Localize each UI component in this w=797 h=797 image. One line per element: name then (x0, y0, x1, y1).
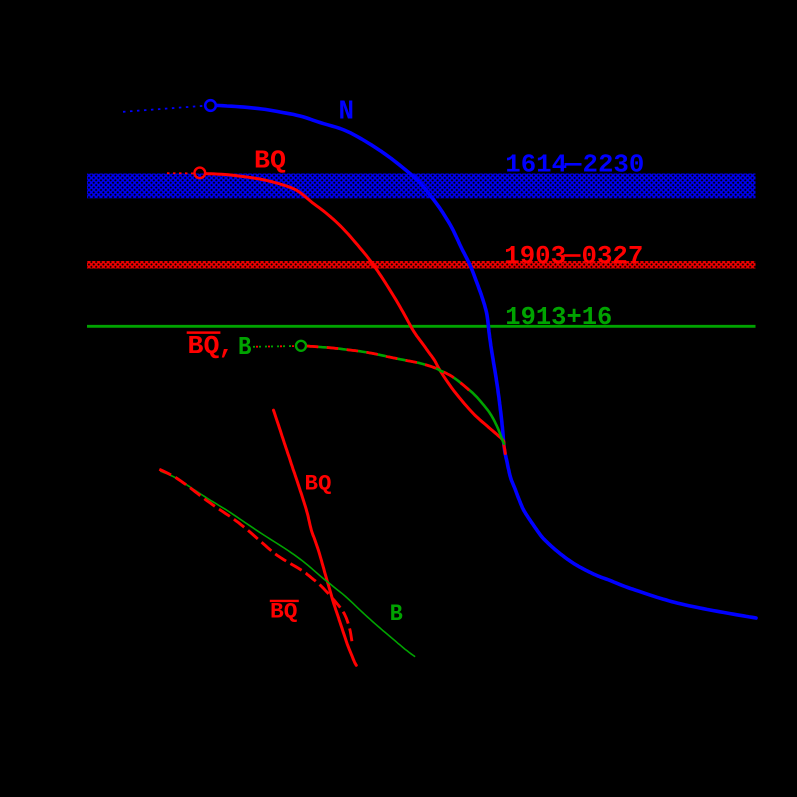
curve B lower (green thin) (160, 471, 415, 657)
svg-text:B: B (238, 332, 252, 362)
svg-text:B: B (390, 601, 403, 628)
svg-text:BQ: BQ (305, 471, 332, 497)
svg-text:1913+16: 1913+16 (505, 302, 612, 332)
wire: blue dotted lead (123, 106, 204, 112)
svg-text:N: N (339, 97, 355, 127)
svg-text:,: , (219, 331, 235, 361)
curve BQbar dashed overlay (red) (307, 346, 470, 391)
wire: red dotted lead (167, 172, 194, 174)
label BQbar, B upper (187, 331, 221, 334)
band 1614-2230 (blue hatched) (87, 174, 756, 199)
band 1903-0327 (red hatched) (87, 261, 756, 269)
line 1913+16 (green) (87, 325, 756, 328)
svg-text:BQ: BQ (270, 600, 298, 625)
curve BQ lower (red straight) (274, 410, 357, 665)
svg-text:BQ: BQ (254, 145, 286, 175)
label BQbar lower (270, 600, 299, 602)
node: green circle marker (296, 341, 306, 351)
node: red circle marker (195, 168, 206, 179)
curve BQbar lower (red dashed) (159, 469, 352, 645)
curve N (blue) (217, 105, 757, 618)
curve B upper (green) (307, 346, 504, 444)
curve BQ upper (red) (206, 174, 506, 454)
node: blue circle marker (205, 100, 216, 111)
svg-text:BQ: BQ (188, 331, 220, 361)
wire: green/red dotted lead (253, 345, 295, 348)
